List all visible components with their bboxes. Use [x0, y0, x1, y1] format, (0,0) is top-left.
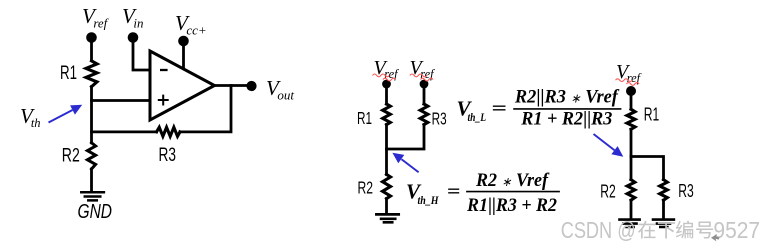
resistor R2	[87, 143, 95, 169]
resistor R3	[157, 127, 180, 136]
arrow Vth_H pointer	[402, 159, 419, 172]
wire Vin	[133, 38, 150, 71]
svg-text:R1: R1	[60, 63, 77, 84]
wire R2 to ground	[630, 200, 633, 219]
node Vref dot right	[626, 86, 636, 96]
arrow Vth pointer	[49, 110, 73, 123]
wire right rail	[630, 129, 633, 179]
svg-text:R1||R3 + R2: R1||R3 + R2	[466, 195, 557, 216]
node Vin dot	[128, 32, 139, 43]
svg-text:CSDN @: CSDN @	[561, 217, 636, 243]
svg-text:R3: R3	[159, 145, 177, 166]
svg-text:R3: R3	[678, 181, 694, 201]
ground R2	[620, 220, 640, 227]
resistor R3 mid	[420, 104, 428, 125]
wire feedback left	[92, 130, 157, 133]
resistor R2 right	[627, 180, 635, 201]
resistor R1 mid	[383, 104, 391, 125]
ground	[81, 192, 104, 200]
svg-text:=: =	[447, 182, 461, 203]
svg-text:9527: 9527	[713, 217, 760, 243]
wire Vref1 down	[385, 84, 388, 104]
wire feedback right	[180, 86, 231, 132]
svg-text:R2: R2	[358, 178, 374, 198]
wire node horizontal	[631, 157, 664, 180]
wire R3 bottom	[387, 125, 425, 149]
wire Vref down right	[630, 91, 633, 109]
squiggle red underline right	[616, 79, 633, 82]
wire mid rail	[385, 125, 388, 175]
svg-text:GND: GND	[78, 201, 113, 223]
svg-text:R1 + R2||R3: R1 + R2||R3	[520, 109, 612, 130]
formula Vth_H bar	[466, 191, 560, 193]
formula Vth_L bar	[513, 108, 621, 110]
ground mid	[376, 214, 398, 222]
resistor R1	[86, 61, 97, 87]
node Vcc dot	[178, 36, 189, 47]
resistor R2 mid	[383, 174, 391, 198]
resistor R3 right	[660, 180, 668, 201]
svg-text:R2 ∗ Vref: R2 ∗ Vref	[475, 170, 550, 191]
squiggle red underline 2	[410, 74, 427, 77]
ground R3	[653, 220, 674, 227]
wire Vcc	[182, 41, 185, 70]
svg-text:R1: R1	[644, 105, 660, 125]
wire to ground mid	[385, 199, 388, 214]
svg-text:R1: R1	[357, 108, 372, 128]
wire Vref vertical	[90, 38, 93, 61]
svg-text:R2: R2	[600, 181, 616, 201]
node Vref1 dot	[382, 80, 391, 89]
svg-text:R2: R2	[62, 146, 80, 167]
op-amp minus pin	[160, 69, 168, 71]
squiggle red underline 1	[373, 74, 390, 77]
wire to ground	[90, 169, 93, 192]
wire Vref2 down	[423, 84, 426, 104]
node Vref dot	[86, 32, 97, 43]
resistor R1 right	[627, 109, 635, 129]
watermark CJK glyphs	[638, 221, 713, 239]
wire output	[215, 84, 252, 87]
cursor icon	[711, 234, 720, 241]
wire R3 to ground	[662, 200, 665, 219]
node Vref2 dot	[420, 80, 429, 89]
svg-text:R2||R3 ∗ Vref: R2||R3 ∗ Vref	[514, 87, 620, 108]
op-amp U1	[150, 51, 215, 120]
op-amp plus pin	[158, 95, 169, 106]
wire left rail	[90, 87, 93, 143]
svg-text:=: =	[492, 99, 508, 120]
wire plus input	[92, 99, 151, 102]
arrow node pointer right	[594, 134, 615, 150]
node Vout dot	[246, 81, 256, 91]
svg-text:R3: R3	[432, 108, 447, 128]
